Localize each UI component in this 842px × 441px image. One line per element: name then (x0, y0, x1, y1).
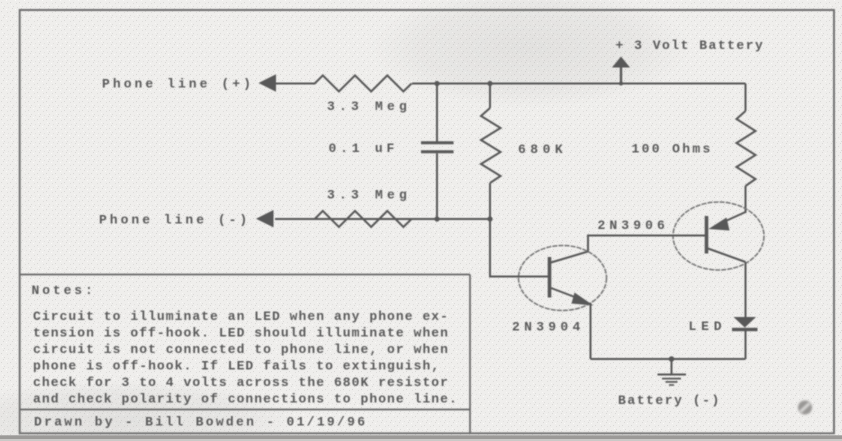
wire: phone line (+) bus, y=83.5 (275, 83, 746, 85)
arrow to phone line (+) (259, 74, 277, 91)
svg-text:3.3 Meg: 3.3 Meg (327, 188, 411, 203)
transistor Q1 2N3904 base bar (548, 257, 552, 298)
arrow to phone line (-) (256, 210, 274, 227)
junction node at ground (669, 356, 675, 362)
wire: 100 Ohms to Q2 emitter (745, 186, 747, 213)
junction node at battery arrow (619, 82, 623, 86)
wire: right bus corner down to 100 Ohms (745, 84, 747, 112)
capacitor 0.1 uF (421, 143, 454, 152)
junction node at 680K bottom (487, 216, 492, 221)
watermark icon (798, 401, 812, 415)
svg-text:LED: LED (689, 319, 727, 334)
LED diode symbol (732, 317, 758, 331)
svg-text:2N3906: 2N3906 (598, 218, 669, 233)
transistor Q1 emitter (arrow out, NPN) (551, 288, 594, 306)
wire: Q1 emitter down (590, 303, 592, 359)
resistor 680K (481, 108, 501, 183)
svg-text:check for 3 to 4 volts across: check for 3 to 4 volts across the 680K r… (33, 375, 449, 390)
wire: bottom rail (591, 358, 746, 360)
svg-text:+ 3 Volt Battery: + 3 Volt Battery (616, 38, 765, 53)
transistor Q1 2N3904 body (519, 246, 607, 311)
svg-text:Notes:: Notes: (32, 283, 96, 298)
junction node at 680K top (487, 81, 492, 86)
junction node at cap bottom (434, 216, 439, 221)
ground symbol (658, 359, 687, 385)
transistor Q2 2N3906 base bar (705, 216, 709, 254)
notes paragraph (33, 309, 458, 407)
svg-text:circuit is not connected to ph: circuit is not connected to phone line, … (33, 342, 449, 357)
resistor 100 Ohms (737, 111, 756, 186)
svg-text:Battery (-): Battery (-) (618, 393, 721, 408)
svg-text:100 Ohms: 100 Ohms (632, 142, 713, 157)
resistor 3.3 Meg (bottom) (311, 211, 412, 227)
wire: capacitor branch bottom (436, 153, 438, 219)
svg-text:Drawn by - Bill Bowden - 01/19: Drawn by - Bill Bowden - 01/19/96 (34, 414, 367, 429)
svg-text:phone is off-hook. If LED fail: phone is off-hook. If LED fails to extin… (33, 359, 440, 374)
wire: 680K top lead (489, 84, 491, 109)
svg-text:Phone line (-): Phone line (-) (99, 213, 250, 228)
svg-text:tension is off-hook. LED shoul: tension is off-hook. LED should illumina… (33, 326, 449, 341)
wire: Q2 collector down to LED (745, 262, 747, 317)
transistor Q2 emitter (arrow in, PNP) (709, 212, 746, 231)
svg-text:and check polarity of connecti: and check polarity of connections to pho… (33, 392, 458, 407)
wire: capacitor branch top (436, 84, 438, 142)
svg-text:680K: 680K (518, 142, 567, 157)
transistor Q2 2N3906 body (673, 202, 764, 270)
wire: 680K node down to Q1 base (490, 219, 548, 277)
svg-text:Circuit to illuminate an LED w: Circuit to illuminate an LED when any ph… (33, 309, 449, 324)
resistor 3.3 Meg (top) (311, 75, 412, 91)
wire: 680K bottom lead (489, 183, 491, 219)
notes box (20, 275, 470, 434)
svg-text:2N3904: 2N3904 (512, 320, 585, 335)
transistor Q2 collector (708, 249, 746, 263)
battery + arrow (612, 57, 630, 84)
svg-text:0.1 uF: 0.1 uF (329, 141, 399, 156)
svg-text:3.3 Meg: 3.3 Meg (327, 99, 411, 114)
wire: LED to bottom rail (745, 331, 747, 359)
junction node at cap top (434, 81, 439, 86)
wire: phone line (-) (275, 218, 490, 220)
wire: Q1 collector to Q2 base (551, 236, 705, 263)
svg-text:Phone line (+): Phone line (+) (102, 77, 254, 92)
